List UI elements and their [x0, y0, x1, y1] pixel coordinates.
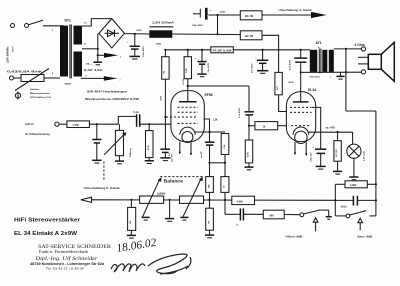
svg-text:5H65: 5H65	[156, 44, 162, 46]
screen bypass cap C9	[160, 149, 173, 162]
heater note text	[85, 89, 139, 101]
svg-text:NTC/S 04Ohm(-13,6): NTC/S 04Ohm(-13,6)	[30, 96, 51, 99]
svg-text:1M: 1M	[208, 221, 210, 224]
svg-text:+: +	[195, 58, 197, 60]
svg-text:Tel. 03 43 27 / 8 38 39: Tel. 03 43 27 / 8 38 39	[46, 266, 84, 270]
choke L1	[149, 21, 175, 46]
volume pot P1	[104, 116, 136, 163]
EF86 anode wire	[187, 85, 249, 112]
resistor R2 10k	[240, 31, 278, 50]
svg-text:0,1u: 0,1u	[134, 111, 139, 114]
speaker LS1	[358, 42, 394, 81]
svg-text:100u 400V: 100u 400V	[192, 24, 203, 27]
EF86 cathode network	[195, 119, 229, 164]
svg-text:470k: 470k	[147, 144, 150, 150]
svg-text:EF86: EF86	[205, 93, 213, 97]
svg-text:230V 50/60Hz: 230V 50/60Hz	[6, 46, 10, 63]
bass switch S3	[335, 211, 376, 239]
svg-text:S/N 4047 Heizleitungen: S/N 4047 Heizleitungen	[87, 89, 127, 93]
EL34 g2 bypass	[311, 107, 327, 169]
svg-text:4,99k: 4,99k	[350, 184, 357, 187]
cap C2 100u top chain	[192, 8, 226, 34]
svg-text:220k: 220k	[186, 67, 188, 73]
feedback divider boxes	[206, 163, 229, 200]
resistor R14 under node2	[205, 200, 214, 238]
svg-text:4,7n 630V: 4,7n 630V	[289, 59, 292, 70]
svg-text:47,5K 0,5W: 47,5K 0,5W	[213, 49, 233, 52]
svg-text:S2082: S2082	[65, 84, 72, 86]
svg-text:Widerstandsschutz: Widerstandsschutz	[30, 92, 51, 95]
resistor R5 220k anode load	[183, 49, 192, 86]
capacitor C4 50u	[251, 49, 269, 74]
svg-text:ca.+40V: ca.+40V	[326, 127, 336, 130]
stamp	[30, 245, 112, 270]
svg-text:NT1: NT1	[65, 19, 72, 23]
svg-text:Kaltleiter: Kaltleiter	[30, 88, 40, 91]
svg-text:100u 400V: 100u 400V	[142, 46, 145, 57]
balance pot P2	[140, 177, 166, 217]
svg-text:+110V: +110V	[183, 78, 185, 85]
centertap wire	[82, 48, 98, 50]
svg-text:3: 3	[52, 30, 54, 32]
svg-text:Höhen +6dB: Höhen +6dB	[286, 234, 303, 238]
resistor R3 47.5k on rail	[211, 47, 234, 53]
svg-text:1n: 1n	[236, 225, 239, 227]
svg-text:10A ---: 10A ---	[86, 63, 93, 66]
ganged dashes + label	[160, 177, 204, 184]
EF86 tube V1	[164, 86, 212, 156]
svg-text:1,2k: 1,2k	[213, 119, 218, 122]
bottom main wire	[81, 197, 335, 202]
output transformer AT1	[310, 41, 334, 73]
svg-text:2x500k: 2x500k	[157, 192, 166, 195]
svg-text:220n: 220n	[341, 205, 347, 208]
bass branch	[334, 181, 377, 216]
svg-text:9: 9	[86, 76, 88, 78]
svg-text:50u 450V: 50u 450V	[251, 63, 254, 73]
rail wire to node	[172, 33, 240, 36]
treble branch	[225, 200, 300, 227]
svg-text:+: +	[313, 147, 315, 149]
svg-text:0,92 uV: 0,92 uV	[25, 123, 34, 126]
svg-text:100u 25V: 100u 25V	[311, 152, 313, 162]
svg-text:4: 4	[52, 72, 54, 75]
grid leak R9 470k EL34	[244, 126, 253, 170]
rail to AT1	[301, 49, 310, 51]
svg-text:ca+2V: ca+2V	[201, 151, 203, 158]
svg-text:AT1: AT1	[316, 41, 322, 45]
speaker wires + terminals	[334, 43, 366, 74]
svg-text:500k log: 500k log	[130, 148, 132, 157]
svg-text:Funk-u. Fernmeldetechnik: Funk-u. Fernmeldetechnik	[39, 250, 88, 254]
resistor R1 10k	[218, 11, 313, 20]
input filter cap C7	[92, 124, 101, 163]
svg-text:4 Ohm: 4 Ohm	[355, 43, 365, 47]
svg-text:für Vollaussteuerung: für Vollaussteuerung	[25, 133, 50, 136]
ground under centertap	[93, 55, 102, 65]
svg-text:s: s	[330, 76, 332, 78]
svg-text:4,99k: 4,99k	[237, 200, 244, 203]
svg-text:0,1u 630V: 0,1u 630V	[239, 107, 241, 118]
svg-text:4,75k: 4,75k	[73, 124, 80, 127]
heater arrow a	[98, 53, 122, 59]
svg-text:10k 1W: 10k 1W	[245, 15, 254, 18]
svg-text:+85V: +85V	[161, 95, 163, 101]
svg-text:HiFi Stereoverstärker: HiFi Stereoverstärker	[14, 218, 80, 224]
svg-text:470k: 470k	[247, 151, 250, 157]
wire bridge top to NT1 pin10	[82, 19, 112, 26]
svg-text:+310V: +310V	[288, 82, 295, 84]
svg-text:0,63/0,8A flink: 0,63/0,8A flink	[7, 70, 43, 73]
svg-text:Wechselstrom 230/400V 0,5W: Wechselstrom 230/400V 0,5W	[85, 97, 139, 101]
treble switch S2	[286, 210, 332, 239]
svg-text:Umschaltung li. Kanal: Umschaltung li. Kanal	[84, 187, 120, 190]
wire bridge left to centertap	[98, 33, 99, 49]
svg-text:+: +	[255, 58, 257, 60]
coupling cap C8 0.1u	[134, 111, 172, 127]
svg-text:a: a	[120, 57, 122, 59]
heater labels	[84, 63, 103, 73]
bridge rectifier B1	[99, 19, 124, 48]
node B+	[134, 33, 136, 35]
svg-text:10k 1W: 10k 1W	[245, 35, 254, 38]
svg-text:10: 10	[84, 23, 87, 25]
svg-text:EL 34 Eintakt A 2x9W: EL 34 Eintakt A 2x9W	[14, 231, 77, 237]
svg-text:470 5W: 470 5W	[335, 149, 338, 157]
grid leak R11 470k EF86	[145, 124, 154, 163]
input labels	[25, 123, 50, 136]
svg-text:Bass +6dB: Bass +6dB	[358, 234, 373, 238]
svg-text:+320V: +320V	[219, 12, 226, 14]
ground stubs under balance	[142, 200, 189, 221]
svg-text:+: +	[210, 10, 212, 12]
resistor R6 screen EL34	[275, 49, 295, 112]
svg-text:6,3V 4,5A: 6,3V 4,5A	[84, 69, 103, 72]
resistor R15 4.99k on wire	[232, 196, 255, 204]
svg-text:960: 960	[270, 215, 275, 218]
svg-text:48739 Nordkirchen . Lünenberge: 48739 Nordkirchen . Lünenberger Str 62a	[30, 262, 104, 266]
arrow Umschaltung re Kanal	[279, 9, 327, 18]
resistor R10 4.75k	[59, 121, 118, 128]
wire bridge to choke	[124, 33, 149, 35]
channel link dashed	[84, 162, 120, 190]
NFB line	[346, 49, 376, 216]
lamp La1	[347, 132, 366, 180]
capacitor C3 50u	[195, 49, 210, 77]
svg-text:Balance: Balance	[164, 179, 184, 184]
filter cap C1 100u	[127, 34, 145, 59]
svg-text:Umschaltung re. Kanal: Umschaltung re. Kanal	[279, 9, 312, 12]
EL34 cathode wire	[309, 127, 353, 133]
svg-text:+325V: +325V	[136, 30, 143, 32]
svg-text:6,3V 0,1A: 6,3V 0,1A	[362, 151, 365, 161]
anode bottom wire	[301, 72, 362, 78]
svg-text:50u 25V: 50u 25V	[171, 153, 173, 162]
svg-text:18.06.02: 18.06.02	[116, 237, 158, 255]
svg-text:50u 450V: 50u 450V	[207, 62, 210, 72]
cathode resistor R12	[333, 132, 342, 174]
thermistor note text	[30, 88, 51, 99]
svg-text:1,5H 250mA: 1,5H 250mA	[152, 21, 175, 25]
mains label 230V	[6, 46, 15, 63]
theta symbol	[15, 92, 20, 100]
snubber cap C10	[289, 49, 308, 74]
resistor R4 1M screen feed	[161, 49, 169, 149]
mains switch S1	[11, 20, 65, 27]
svg-text:230 V: 230 V	[13, 46, 15, 52]
coupling cap C6 0.1u 630V	[239, 107, 254, 125]
svg-text:+: +	[127, 42, 129, 44]
svg-text:EL34: EL34	[308, 88, 316, 92]
svg-text:1M: 1M	[130, 221, 132, 224]
heater winding wire + arrow e	[81, 76, 122, 81]
signature	[111, 254, 191, 274]
balance pot P3	[180, 177, 204, 217]
transformer NT1	[52, 19, 88, 86]
svg-text:e: e	[120, 80, 122, 82]
svg-text:600mOhm: 600mOhm	[310, 77, 321, 79]
B+ rail 2	[165, 49, 301, 51]
input terminal	[55, 122, 59, 126]
resistor R13 under node	[127, 200, 136, 238]
thermistor R-NTC	[10, 69, 61, 91]
svg-text:1M: 1M	[163, 71, 165, 74]
svg-text:11: 11	[84, 44, 87, 46]
EL34 tube V2	[286, 72, 316, 156]
grid stopper R8	[248, 122, 287, 130]
AT1 secondary ground	[336, 72, 344, 79]
